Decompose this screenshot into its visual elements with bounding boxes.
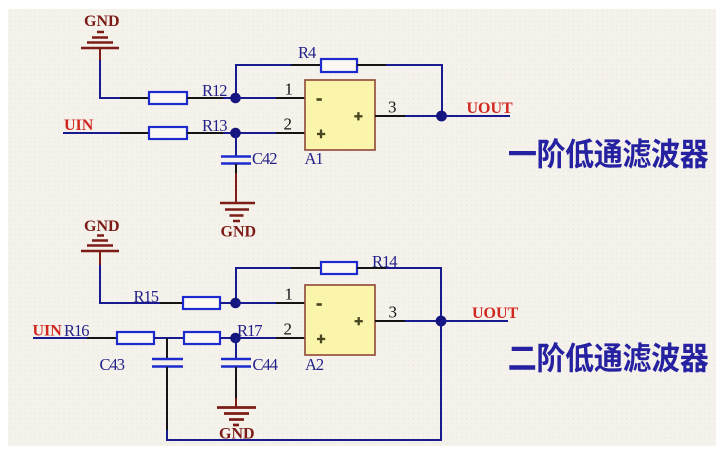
wire R14 to output node (bottom): [386, 268, 441, 321]
wire UIN to R16: [33, 337, 88, 339]
svg-text:R15: R15: [134, 287, 159, 306]
resistor R16 body: [117, 332, 154, 344]
wire GND to R15: [100, 265, 161, 303]
svg-text:UOUT: UOUT: [467, 100, 514, 117]
svg-text:C43: C43: [100, 355, 125, 374]
pin 2 lead of A1: [276, 132, 306, 134]
pin 3 lead of A1: [375, 115, 406, 117]
svg-text:1: 1: [285, 80, 294, 99]
op-amp A1 minus input mark: [317, 98, 322, 101]
pin lead R14.1: [291, 267, 321, 269]
pin lead R14.2: [357, 267, 387, 269]
op-amp A2 plus input mark: [317, 335, 325, 344]
title first-order low-pass filter: [509, 138, 708, 169]
svg-text:UOUT: UOUT: [472, 305, 519, 322]
power port GND stem (bottom-left): [99, 251, 101, 266]
pin lead R12.1: [120, 97, 149, 99]
svg-text:C42: C42: [252, 149, 277, 168]
resistor R4 body: [321, 59, 357, 72]
svg-text:A2: A2: [305, 355, 324, 374]
junction node B: [230, 128, 241, 139]
title second-order low-pass filter: [509, 342, 708, 373]
pin lead R4.1: [291, 64, 321, 66]
pin lead C43 bottom: [166, 367, 168, 431]
wire node B down to C42: [235, 133, 237, 156]
svg-text:2: 2: [284, 115, 293, 134]
junction node C: [230, 298, 241, 309]
power port GND stem (top-left): [99, 48, 101, 61]
wire R12 to node A: [223, 97, 236, 99]
junction output node (top): [436, 111, 447, 122]
pin 1 lead of A1: [276, 97, 306, 99]
wire UOUT (top): [442, 115, 510, 117]
wire GND to R12: [100, 60, 121, 98]
pin lead R15.1: [160, 302, 184, 304]
wire pin 3 to output node: [405, 115, 442, 117]
pin lead C44 bottom: [235, 367, 237, 399]
capacitor C44 plates: [221, 359, 251, 367]
wire feedback rail (bottom loop): [167, 321, 441, 440]
wire node A up to R4: [236, 65, 292, 98]
pin lead R16.1: [87, 337, 117, 339]
wire node A to pin 1: [236, 97, 277, 99]
op-amp A1 plus input mark: [317, 130, 325, 139]
svg-text:3: 3: [388, 98, 397, 117]
svg-text:2: 2: [284, 320, 293, 339]
power port GND (bottom-left) bar symbol: [81, 236, 119, 252]
op-amp A2 minus input mark: [317, 303, 322, 306]
svg-text:UIN: UIN: [64, 117, 94, 134]
pin lead R4.2: [357, 64, 387, 66]
svg-text:A1: A1: [305, 149, 324, 168]
svg-text:3: 3: [389, 303, 398, 322]
svg-text:R4: R4: [298, 43, 316, 62]
wire UIN to R13: [63, 132, 121, 134]
op-amp A2 body: [305, 285, 375, 355]
ground symbol below C42: [220, 203, 255, 221]
resistor R13 body: [149, 127, 187, 139]
power port GND stem (below C42): [235, 173, 237, 202]
resistor R15 body: [183, 297, 220, 309]
pin 1 lead of A2: [276, 302, 306, 304]
resistor R14 body: [321, 262, 357, 274]
wire R17 to node D: [220, 337, 236, 339]
op-amp A2 output polarity mark: [355, 317, 363, 325]
wire R15 to node C: [220, 302, 236, 304]
svg-text:UIN: UIN: [33, 323, 63, 340]
junction output node (bottom): [436, 316, 447, 327]
capacitor C42 plates: [221, 157, 251, 164]
pin 3 lead of A2: [375, 320, 406, 322]
wire node C to pin 1: [236, 302, 277, 304]
wire UOUT (bottom): [441, 320, 508, 322]
ground symbol below C44: [217, 408, 256, 426]
wire node D down to C44: [235, 338, 237, 358]
pin lead R12.2: [187, 97, 224, 99]
resistor R12 body: [149, 92, 187, 104]
wire R13 to node B: [223, 132, 236, 134]
wire node C up to R14: [236, 268, 292, 303]
svg-text:C44: C44: [253, 355, 278, 374]
junction node D: [230, 333, 241, 344]
op-amp A1 body: [305, 80, 375, 150]
pin lead R13.1: [120, 132, 149, 134]
junction node A: [230, 93, 241, 104]
power port GND stem (below C44): [235, 398, 237, 407]
wire node D to pin 2: [236, 337, 277, 339]
op-amp A1 output polarity mark: [354, 112, 362, 120]
power port GND (top-left) bar symbol: [81, 32, 119, 48]
svg-text:1: 1: [285, 285, 294, 304]
pin lead R13.2: [187, 132, 224, 134]
wire node B to pin 2: [236, 132, 277, 134]
wire pin 3 to output node (bottom): [405, 320, 441, 322]
pin 2 lead of A2: [276, 337, 306, 339]
wire R16 to R17: [154, 337, 184, 339]
svg-text:GND: GND: [84, 13, 120, 30]
svg-text:GND: GND: [84, 218, 120, 235]
wire R4 to output node: [386, 65, 442, 116]
capacitor C43 plates: [152, 359, 183, 367]
pin lead C42 bottom: [235, 164, 237, 174]
resistor R17 body: [184, 332, 220, 344]
svg-text:GND: GND: [221, 224, 257, 241]
wire tap down to C43: [166, 338, 168, 358]
